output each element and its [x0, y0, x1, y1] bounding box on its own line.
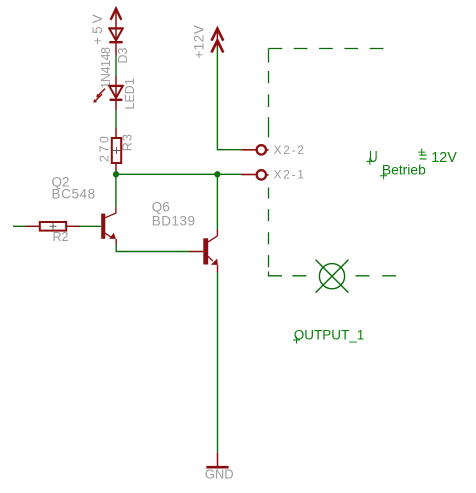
svg-text:OUTPUT_1: OUTPUT_1	[294, 327, 365, 342]
svg-text:R2: R2	[53, 230, 69, 244]
svg-text:270: 270	[97, 134, 111, 162]
dashed outline top edge	[269, 48, 385, 50]
svg-text:BC548: BC548	[52, 186, 96, 201]
supply +5V symbol	[111, 9, 122, 29]
node B junction	[214, 171, 220, 177]
wire node A to node B to X2-1	[116, 173, 242, 175]
transistor Q6	[189, 230, 218, 273]
wire Q6 emitter down to GND	[217, 272, 219, 453]
wire stub into R2	[13, 225, 26, 227]
text U (with origin cross)	[366, 149, 377, 166]
transistor Q2	[101, 208, 116, 246]
wire Q2 collector to node A	[115, 174, 117, 207]
svg-text:BD139: BD139	[152, 214, 196, 229]
supply +12V symbol	[212, 29, 224, 53]
wire net between D3 and LED1	[115, 55, 117, 76]
lamp symbol	[316, 260, 349, 293]
wire Q2 emitter to Q6 base	[116, 245, 189, 252]
svg-text:X2-2: X2-2	[274, 143, 306, 157]
wire Q6 collector to node B	[216, 174, 218, 229]
svg-text:D3: D3	[116, 47, 130, 63]
resistor R2	[26, 222, 80, 231]
text Betrieb (with origin cross)	[380, 162, 426, 180]
wire +12V down and right to X2-2	[217, 48, 241, 150]
svg-text:R3: R3	[120, 133, 134, 151]
net label OUTPUT_1	[293, 327, 364, 343]
svg-text:+12V: +12V	[192, 24, 207, 58]
svg-text:GND: GND	[205, 467, 234, 482]
svg-text:X2-1: X2-1	[274, 168, 306, 182]
svg-text:Q6: Q6	[152, 200, 170, 215]
svg-text:+5V: +5V	[90, 11, 105, 44]
connector pin X2-1	[242, 170, 269, 179]
wire net between LED1 and R3	[115, 110, 117, 128]
ground GND	[206, 453, 228, 468]
wire R3 to node A	[115, 171, 117, 174]
dashed outline bottom edge (left of lamp, with corner)	[269, 272, 319, 276]
svg-text:1N4148: 1N4148	[99, 47, 113, 89]
diode D3	[109, 28, 123, 55]
svg-text:= 12V: = 12V	[419, 149, 457, 166]
resistor R3	[112, 128, 121, 171]
svg-text:LED1: LED1	[123, 78, 137, 109]
text = 12V (with origin cross)	[418, 149, 457, 166]
wire R2 to Q2 base	[80, 225, 101, 227]
dashed outline left edge	[268, 49, 270, 268]
node A junction	[113, 171, 119, 177]
dashed outline bottom edge (right of lamp)	[344, 275, 396, 277]
connector pin X2-2	[242, 145, 269, 154]
LED LED1	[93, 76, 123, 110]
